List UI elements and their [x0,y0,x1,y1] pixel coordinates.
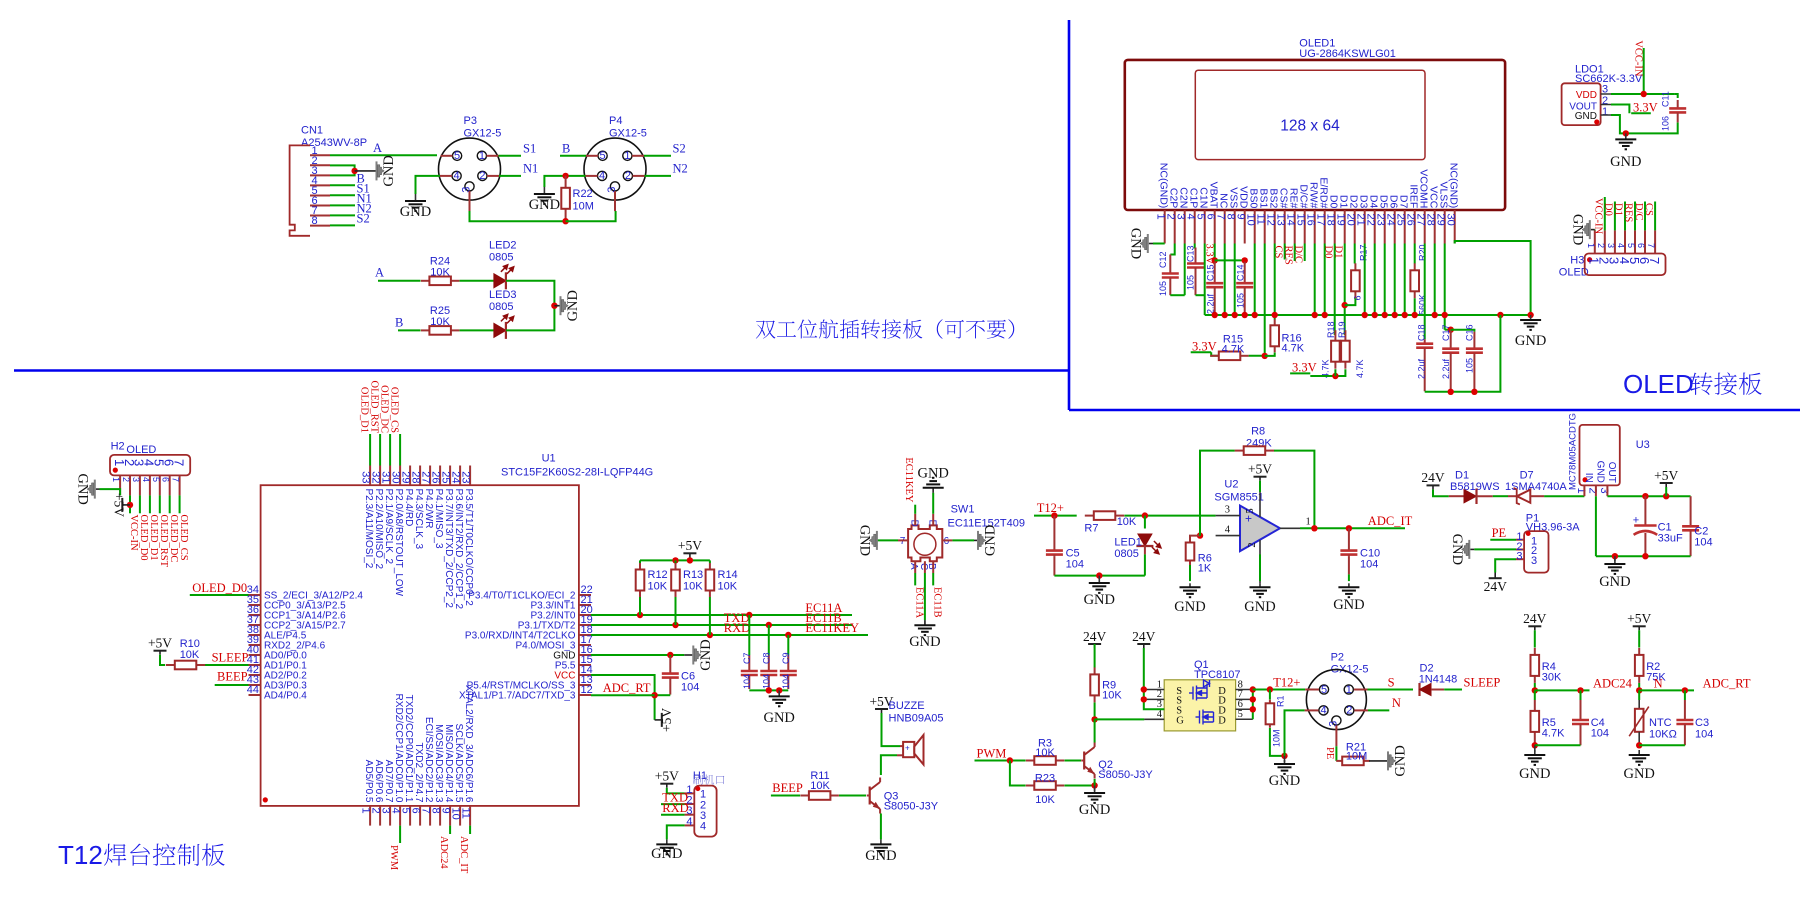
wire U1 pin30 net OLED_CS [389,387,401,466]
svg-text:OLED_CS: OLED_CS [178,514,189,560]
regulator U3 MC78M05ACDTG [1568,413,1650,496]
svg-text:2: 2 [479,170,485,182]
svg-text:IN: IN [1583,473,1594,483]
svg-text:+5V: +5V [678,538,702,553]
wire buzzer bottom to Q3 collector [881,755,897,775]
wire Q1 sources to 24V [1132,629,1164,710]
svg-text:A: A [908,563,919,570]
capacitor C18 2.2uf [1416,324,1433,391]
capacitor C5 104 [1046,516,1084,576]
svg-text:RES: RES [1623,203,1634,222]
op-amp U2 SGM8551 [1214,479,1310,584]
svg-text:128 x 64: 128 x 64 [1280,118,1340,135]
wire P2 pin2 net N [1368,696,1401,710]
svg-text:D/C: D/C [1633,203,1644,221]
wire LED3 to ground node [506,306,554,331]
resistor R22 10M [561,176,594,221]
net label D/C pin15 [1292,244,1304,264]
wire SW1 pin7 to ground flag [873,539,898,541]
svg-text:D1: D1 [1332,246,1343,259]
svg-text:S8050-J3Y: S8050-J3Y [884,801,939,813]
svg-text:P4.1/MISO_3: P4.1/MISO_3 [433,489,444,549]
svg-text:EC11KEY: EC11KEY [805,621,859,635]
net label ADC24 at U1 pin9 [438,826,450,870]
svg-text:1: 1 [1586,243,1596,248]
wire CN1 pin2/pin3 to ground [330,165,355,175]
wire opamp output net ADC_IT [1300,514,1413,532]
ground earth C5 LED1 [1084,579,1115,608]
svg-text:5: 5 [151,477,161,482]
capacitor C2 104 [1682,496,1713,556]
LED LED3 0805 [489,289,517,339]
connector H1 programming port [685,770,725,837]
resistor R4 30K [1531,648,1563,694]
svg-text:2: 2 [121,477,131,482]
svg-text:6: 6 [1353,295,1363,300]
wire R9 to Q1 gate [1095,718,1165,720]
svg-text:2: 2 [1346,705,1352,717]
svg-text:3: 3 [1327,721,1339,727]
net label PWM at U1 pin4 [388,826,400,871]
svg-text:5: 5 [1238,709,1243,720]
svg-text:R18: R18 [1326,321,1336,338]
svg-text:+: + [905,744,910,753]
svg-text:R20: R20 [1418,244,1428,261]
svg-text:7: 7 [1647,257,1662,264]
svg-text:P3: P3 [464,115,477,127]
resistor R17 [1345,244,1369,306]
svg-text:CN1: CN1 [301,125,323,137]
wire net A to R24 [375,266,421,281]
power flag +5V above R12-R14 [678,538,702,560]
svg-text:R17: R17 [1359,244,1369,261]
svg-text:10K: 10K [430,266,450,278]
ground flag CN1 [376,155,398,186]
net label D1 H3 pin4 [1613,202,1625,231]
svg-text:104: 104 [681,682,699,694]
svg-text:11: 11 [460,808,472,819]
svg-text:R19: R19 [1337,321,1347,338]
svg-text:1: 1 [1306,517,1311,528]
svg-text:105: 105 [1236,293,1246,308]
svg-text:4.7K: 4.7K [1355,359,1365,378]
svg-text:ADC_IT: ADC_IT [1368,514,1413,528]
power flag +5V at U3 [1654,468,1678,496]
wire D1 to D7 [1493,495,1508,497]
net label T12+ at C5 [1034,501,1077,519]
svg-text:GND: GND [1595,461,1606,483]
wire R7 to opamp and LED1 [1124,512,1215,518]
svg-text:R7: R7 [1084,523,1098,535]
ground earth H1 [651,839,682,862]
svg-text:GND: GND [381,155,397,186]
net label OLED_DC H2 pin6 [168,495,179,562]
net label 3.3V on VBAT [1203,244,1214,265]
wire P4 pin2 net N2 [645,162,688,176]
wire H2 pin1 to ground flag [96,489,120,495]
net label TXD H1 pin2 [661,790,688,804]
svg-text:GND: GND [1244,599,1275,615]
svg-text:GND: GND [763,710,794,726]
svg-text:SW1: SW1 [951,504,975,516]
svg-text:BUZZE: BUZZE [889,700,925,712]
svg-text:GND: GND [983,525,999,556]
svg-text:3: 3 [1516,551,1522,563]
svg-text:5: 5 [454,150,460,162]
net label ADC_RT at U1 pin12 [591,681,655,695]
svg-text:H2: H2 [111,441,125,453]
svg-text:GND: GND [1519,766,1550,782]
connector H2 OLED header [110,441,190,496]
wire Q1 drain bus to T12+ [1250,675,1305,719]
svg-text:3: 3 [606,187,618,193]
wire H1 pin1 to +5V [667,788,685,794]
wire Q3 emitter to ground [880,814,882,840]
svg-text:P3.5/T1/T0CLKO/CCP0_2: P3.5/T1/T0CLKO/CCP0_2 [463,489,474,607]
wire P4 pin1 net S2 [644,142,686,156]
ground earth U2 pin2 [1244,554,1275,615]
svg-text:S: S [1388,675,1395,689]
net label PWM at R3 [975,746,1026,763]
net label CS pin13 [1272,244,1284,260]
svg-text:C14: C14 [1236,264,1246,281]
svg-text:+5V: +5V [659,708,674,732]
svg-text:+5V: +5V [1627,611,1651,626]
svg-text:S1: S1 [523,142,536,156]
svg-text:GND: GND [909,634,940,650]
regulator LDO1 SC662K-3.3V [1562,64,1643,126]
power flag 24V at R4 [1523,611,1547,647]
ground earth Q2 [1079,786,1110,819]
svg-text:OLED_CS: OLED_CS [389,387,400,433]
wire R22 bottom to P4 pin3 [562,211,615,224]
capacitor C17 2.2uf [1441,324,1459,391]
svg-text:N1: N1 [523,162,538,176]
svg-text:LED3: LED3 [489,289,517,301]
net label VCC-IN at LDO1 [1633,40,1644,94]
svg-text:C17: C17 [1441,324,1451,341]
net label D/C H3 pin6 [1633,202,1645,231]
svg-text:10K: 10K [1035,794,1055,806]
svg-text:104: 104 [1694,537,1712,549]
resistor R21 10M [1336,742,1370,766]
svg-text:OLED_D0: OLED_D0 [192,581,247,595]
svg-text:VCC-IN: VCC-IN [1633,40,1644,77]
svg-text:1N4148: 1N4148 [1419,674,1458,686]
svg-text:OLED_D1: OLED_D1 [359,387,370,433]
svg-text:MC78M05ACDTG: MC78M05ACDTG [1568,413,1579,490]
power flag +5V at buzzer [869,694,893,713]
zener diode D7 1SMA4740A [1505,470,1567,505]
connector CN1 A2543WV-8P [290,125,367,236]
svg-text:P2.3/A11/MOSI_2: P2.3/A11/MOSI_2 [363,489,374,569]
net label OLED_RST H2 pin5 [158,495,169,567]
svg-text:3: 3 [1606,243,1616,248]
LED LED1 0805 [1114,516,1161,576]
ground flag OLED pin1 [1127,228,1149,259]
svg-text:105: 105 [1465,358,1475,373]
svg-text:10M: 10M [573,201,594,213]
svg-text:GND: GND [651,846,682,862]
net label PE and R21 at P2 pin3 [1324,746,1336,761]
net label OLED_D1 H2 pin4 [148,495,159,560]
wire net B to R25 [395,316,421,331]
wire P4 pin4 to ground and R22 [544,173,585,187]
svg-text:SLEEP: SLEEP [212,651,249,665]
power flag +5V at U2 [1248,462,1272,493]
svg-text:560K: 560K [1418,294,1428,315]
connector H3 OLED adapter header [1559,230,1666,278]
svg-text:C3: C3 [1695,717,1709,729]
net label RXD H1 pin3 [661,801,689,815]
wire CN1 pin8 net S2 [330,212,370,226]
svg-text:+: + [1633,515,1639,527]
svg-text:D/C: D/C [1292,246,1303,264]
net label RES H3 pin5 [1623,202,1635,231]
wire R9 to Q2 collector [1094,719,1096,742]
net label CS H3 pin7 [1643,202,1655,231]
wire U1 pin14 VCC to +5V [591,675,658,720]
net label 3.3V to R18 R19 [1290,361,1345,380]
connector P1 VH3.96-3A [1516,513,1580,573]
svg-text:104: 104 [1360,559,1378,571]
wire LDO1 GND to earth [1611,115,1629,137]
svg-text:4: 4 [1225,525,1231,536]
svg-text:30K: 30K [1542,672,1562,684]
svg-text:C8: C8 [762,652,772,664]
svg-text:RXD: RXD [662,801,688,815]
svg-text:EC11A: EC11A [913,587,924,619]
svg-text:D0: D0 [1322,246,1333,259]
connector P3 GX12-5 [439,115,502,211]
svg-text:SGM8551: SGM8551 [1214,492,1264,504]
net label VCC-IN H3 pin2 [1593,197,1605,235]
svg-text:105: 105 [1185,275,1195,290]
svg-text:ECI/SS/ADC2/P1.2: ECI/SS/ADC2/P1.2 [423,717,434,803]
title dual-station adapter board (Chinese) [756,319,1014,339]
wire R11 to Q3 base [839,795,866,797]
svg-text:R22: R22 [573,188,593,200]
svg-text:4: 4 [141,477,151,482]
wire U3 ground rail [1596,553,1691,559]
svg-text:10K: 10K [810,780,830,792]
svg-text:P4.2/WR: P4.2/WR [423,489,434,529]
svg-text:U3: U3 [1636,439,1650,451]
svg-text:CS: CS [1272,246,1283,259]
svg-text:P3.6/INT2/RXD_2/CCP1_2: P3.6/INT2/RXD_2/CCP1_2 [453,489,464,610]
svg-text:OLED_D1: OLED_D1 [148,515,159,561]
svg-text:RXD2/CCP1/ADC0/P1.0: RXD2/CCP1/ADC0/P1.0 [393,694,404,803]
svg-text:D0: D0 [1603,203,1614,216]
svg-text:B: B [926,563,937,570]
svg-text:PE: PE [1324,747,1335,759]
resistor R18 4.7K [1321,321,1340,378]
svg-text:+5V: +5V [655,769,679,784]
svg-text:GND: GND [1515,333,1546,349]
MCU U1 STC15F2K60S2-28I-LQFP44G [247,453,654,826]
svg-text:GND: GND [1569,214,1585,245]
svg-text:5: 5 [1626,243,1636,248]
ground flag SW1 right [977,525,999,556]
svg-text:PE: PE [1492,526,1507,540]
svg-text:S2: S2 [357,212,370,226]
net label D0 pin18 [1322,244,1334,336]
svg-text:P2.2/A10/MISO_2: P2.2/A10/MISO_2 [373,489,384,570]
capacitor C11 106 [1626,91,1686,133]
svg-text:NC(GND): NC(GND) [1448,163,1460,209]
wire 3.3V rail VBAT to VDD [1212,244,1248,264]
wire LED2 to ground node [506,281,554,306]
svg-text:1: 1 [1602,106,1608,118]
wire C7-C9 bottom rail [749,687,788,693]
svg-text:4: 4 [1157,709,1163,720]
svg-text:HNB09A05: HNB09A05 [889,713,944,725]
svg-text:1: 1 [111,477,121,482]
svg-text:3: 3 [131,477,141,482]
ground flag H3 [1569,214,1591,245]
capacitor C13 105 [1185,244,1204,296]
resistor R8 249K feedback [1200,426,1314,536]
svg-text:GND: GND [917,466,948,482]
svg-text:30: 30 [1445,214,1457,226]
wire P1 pin3 to 24V flag [1484,559,1516,594]
wire H1 pin4 to ground [667,825,685,839]
net label ADC24 [1535,677,1633,694]
svg-text:GND: GND [1610,154,1641,170]
svg-text:R13: R13 [683,569,703,581]
connector P4 GX12-5 [584,115,647,211]
svg-text:VCC-IN: VCC-IN [1593,198,1604,235]
wire capacitor bottom rail to bus [1425,315,1501,395]
section divider lines [14,20,1800,410]
rotary encoder SW1 EC11E152T409 [898,504,1025,574]
svg-text:24V: 24V [1484,579,1508,594]
svg-text:VDD: VDD [1576,90,1597,101]
svg-text:D: D [1218,716,1226,727]
resistor R13 10K [671,560,703,625]
svg-text:4.7K: 4.7K [1542,728,1565,740]
resistor R14 10K [706,560,738,635]
wire +5V rail to R12 R13 R14 [640,557,710,563]
svg-text:24V: 24V [1083,629,1107,644]
svg-text:ADC_IT: ADC_IT [458,836,469,874]
svg-text:10K: 10K [1035,747,1055,759]
svg-text:GND: GND [1333,597,1364,613]
net label SLEEP after D2 [1444,675,1500,689]
svg-text:C7: C7 [742,652,752,664]
svg-text:R12: R12 [648,569,668,581]
svg-text:UG-2864KSWLG01: UG-2864KSWLG01 [1299,48,1396,60]
wire C5 LED1 bottom rail to ground [1054,572,1145,579]
resistor R11 10K [800,770,839,800]
capacitor C8 104 [760,625,777,689]
svg-text:104: 104 [1066,559,1084,571]
svg-text:5: 5 [1245,508,1256,513]
svg-text:R1: R1 [1275,695,1285,707]
svg-text:CS: CS [1643,203,1654,216]
thermistor NTC 10K [1629,690,1677,748]
power flag 24V at D1 [1421,470,1448,496]
net label OLED_D0 at U1 pin34 [190,581,249,595]
MOSFET Q1 TPC8107 [1144,659,1253,731]
svg-text:5: 5 [1321,684,1327,696]
svg-text:AD4/P0.4: AD4/P0.4 [264,691,307,702]
wire P3 pin3 bottom [470,211,566,221]
svg-text:4: 4 [1320,705,1326,717]
svg-text:2: 2 [1247,542,1258,547]
svg-text:OLED: OLED [1623,369,1694,399]
svg-text:MISO/ADC4/P1.4: MISO/ADC4/P1.4 [443,724,454,803]
svg-text:BEEP: BEEP [772,781,803,795]
svg-text:B: B [395,316,403,330]
svg-text:P4: P4 [609,115,622,127]
wire pin30 to ground corner [1455,241,1531,315]
wire R24 to LED2 [460,280,495,282]
wire U3 OUT to +5V and caps [1607,493,1690,499]
wire CN1 pin6 net N1 [330,192,372,206]
net label RES pin14 [1282,244,1294,265]
net label ADC_IT at U1 pin11 [458,826,470,874]
svg-text:P2.0/A8/RSTOUT_LOW: P2.0/A8/RSTOUT_LOW [393,489,404,597]
svg-text:OLED_RST: OLED_RST [369,381,380,434]
svg-text:1: 1 [479,150,485,162]
svg-text:OUT: OUT [1606,462,1617,483]
net label PE at P1 pin1 [1490,526,1516,540]
resistor R7 10K [1084,511,1137,534]
svg-text:N: N [1654,677,1663,691]
capacitor C10 104 [1340,528,1380,581]
capacitor C15 2.2uf [1206,262,1224,315]
svg-text:GND: GND [529,197,560,213]
ground earth R5 [1519,750,1550,782]
resistor R6 1K [1186,532,1212,581]
svg-text:P4.3/SCLK_3: P4.3/SCLK_3 [413,489,424,550]
wire D7 to U3 IN [1544,495,1584,497]
ground flag LEDs [560,290,582,321]
svg-text:10K: 10K [1102,690,1122,702]
svg-text:105: 105 [1158,281,1168,296]
net label OLED_CS H2 pin7 [178,495,189,560]
capacitor C7 104 [741,615,758,689]
svg-text:R23: R23 [1035,773,1055,785]
svg-text:0805: 0805 [489,252,513,264]
wire R23 to Q2 emitter node [1065,779,1098,789]
wire P3 pin4 to ground [416,176,441,194]
svg-text:R8: R8 [1251,426,1265,438]
svg-text:10K: 10K [683,581,703,593]
svg-text:D1: D1 [1455,470,1469,482]
svg-text:GND: GND [698,639,714,670]
svg-text:3: 3 [1531,555,1537,567]
svg-text:GX12-5: GX12-5 [609,128,647,140]
svg-text:104: 104 [762,674,772,689]
net label 3.3V at LDO1 VOUT [1611,101,1658,115]
svg-text:24V: 24V [1132,629,1156,644]
svg-text:P3.7/INT3/TXD_2/CCP2_2: P3.7/INT3/TXD_2/CCP2_2 [443,489,454,609]
svg-text:GND: GND [865,848,896,864]
svg-text:D1: D1 [1613,203,1624,216]
wire SW1 pin C to ground [924,573,926,625]
svg-text:GX12-5: GX12-5 [464,128,502,140]
bus wire below OLED [1205,312,1534,318]
wire pin16 pin17 columns [1315,244,1325,316]
svg-text:GND: GND [400,204,431,220]
svg-text:T12+: T12+ [1037,501,1064,515]
wire CN1 pin4 net B [330,172,365,186]
capacitor C16 105 [1451,324,1483,391]
capacitor C14 105 [1236,262,1254,315]
ground earth R6 [1174,583,1205,615]
